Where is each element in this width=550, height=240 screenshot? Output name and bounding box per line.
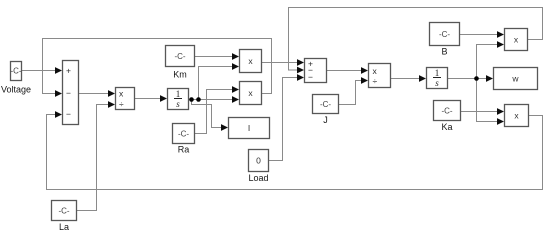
constant Km: [166, 46, 195, 67]
svg-text:Ra: Ra: [178, 145, 190, 155]
wire Integrator2 out to display w: [448, 75, 494, 82]
wire Integrator1 out to Product2 bottom input: [189, 96, 240, 103]
sum Sum1: [63, 61, 79, 125]
wire current branch up to Product1 bottom input: [199, 63, 240, 99]
constant La: [52, 201, 77, 221]
svg-text:I: I: [248, 123, 250, 133]
constant Voltage: [10, 62, 21, 81]
wire omega branch down to ProductKa bottom input: [477, 79, 505, 125]
sum Sum2: [305, 59, 327, 83]
wire La to Divide1 divisor: [77, 101, 115, 210]
wire Km to Product1 top input: [195, 53, 240, 60]
display I: [229, 118, 270, 139]
wire Product2 out feedback to Sum1 minus1: [43, 39, 272, 97]
svg-text:-C-: -C-: [320, 100, 331, 109]
node junction dot B on current line: [196, 97, 201, 102]
integrator Integrator2: [427, 68, 448, 89]
svg-text:Km: Km: [173, 70, 187, 80]
constant J: [313, 95, 339, 114]
wire Sum1 out to Divide1 x: [79, 90, 116, 97]
svg-text:÷: ÷: [119, 99, 124, 109]
svg-text:+: +: [66, 66, 71, 76]
wire Load to Sum2 minus2: [269, 74, 305, 160]
svg-text:-C-: -C-: [441, 107, 452, 116]
svg-text:1: 1: [435, 68, 440, 78]
wire Divide1 out to Integrator1 in: [135, 95, 168, 102]
node junction dot A on current line: [189, 97, 194, 102]
divide Divide2: [369, 64, 391, 88]
wire J to Divide2 divisor: [339, 77, 369, 104]
wire Ka to ProductKa top input: [461, 108, 505, 115]
constant Ra: [173, 124, 195, 144]
svg-text:w: w: [511, 74, 519, 84]
svg-text:Ka: Ka: [441, 122, 452, 132]
wire Divide2 out to Integrator2 in: [391, 75, 427, 82]
svg-text:J: J: [323, 115, 328, 125]
constant B: [430, 23, 460, 46]
svg-text:1: 1: [176, 89, 181, 99]
svg-text:s: s: [435, 78, 439, 88]
svg-text:0: 0: [256, 156, 261, 166]
integrator Integrator1: [168, 89, 189, 110]
wire ProductB out feedback to Sum2 minus1: [289, 8, 543, 74]
svg-text:÷: ÷: [373, 76, 378, 86]
svg-text:La: La: [59, 222, 69, 232]
svg-text:-C-: -C-: [439, 30, 450, 39]
svg-text:s: s: [176, 99, 180, 109]
svg-text:-C-: -C-: [174, 52, 185, 61]
wire omega branch up to ProductB bottom input: [477, 41, 505, 78]
svg-text:Voltage: Voltage: [1, 85, 31, 95]
wire ProductKa out feedback to Sum1 minus2: [47, 111, 543, 189]
wire Ra to Product2 top input: [195, 86, 240, 133]
divide Divide1: [116, 88, 135, 110]
svg-text:−: −: [66, 88, 71, 98]
wire current branch down to display I: [192, 100, 229, 131]
product Product2: [240, 82, 262, 105]
svg-text:-C-: -C-: [58, 207, 69, 216]
wire Voltage to Sum1 +: [22, 67, 62, 74]
constant Load 0: [249, 150, 269, 172]
display w: [494, 68, 538, 90]
product ProductB: [505, 29, 528, 51]
wire Sum2 out to Divide2 x: [327, 67, 369, 74]
product Product1: [240, 50, 262, 73]
svg-text:Load: Load: [248, 173, 268, 183]
svg-text:B: B: [441, 47, 447, 57]
svg-text:−: −: [66, 109, 71, 119]
constant Ka: [434, 101, 461, 121]
svg-text:-C-: -C-: [178, 130, 189, 139]
wire Product1 out to Sum2 +: [262, 59, 305, 66]
wire B to ProductB top input: [460, 31, 505, 38]
product ProductKa: [505, 105, 529, 127]
svg-text:−: −: [308, 72, 313, 82]
svg-text:-C-: -C-: [10, 67, 21, 76]
node junction dot omega: [474, 76, 479, 81]
